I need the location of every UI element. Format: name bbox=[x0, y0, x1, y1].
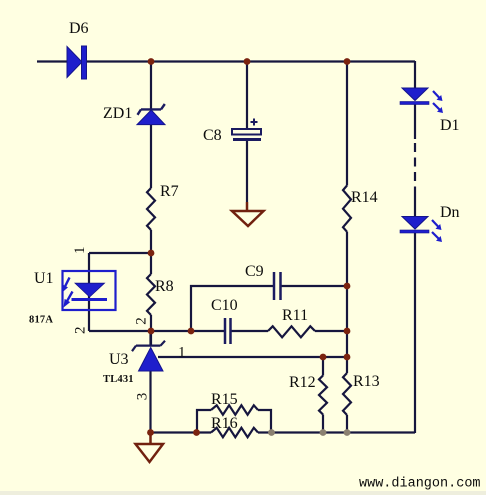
node top-ZD1 bbox=[148, 58, 155, 65]
resistor R15 bbox=[211, 405, 258, 414]
wire vertical x=247 (C8 branch) bbox=[246, 61, 248, 202]
wire LED dashed section bbox=[414, 143, 416, 191]
svg-text:R15: R15 bbox=[211, 391, 238, 408]
shunt ref U3 TL431 bbox=[132, 331, 165, 371]
svg-text:U1: U1 bbox=[34, 270, 54, 287]
node top-C8 bbox=[244, 58, 251, 65]
node top-R14 bbox=[344, 58, 351, 65]
wire vertical x=347 (R14/R13 branch) bbox=[346, 61, 348, 373]
node R15R16 right bbox=[268, 429, 275, 436]
optocoupler U1 bbox=[62, 271, 116, 310]
svg-text:C9: C9 bbox=[245, 263, 264, 280]
wire U3 pin1 y=357 bbox=[158, 356, 347, 358]
node R12 bottom bbox=[320, 429, 327, 436]
wire top rail bbox=[37, 60, 415, 62]
wire vertical x=151 (ZD1/R7/R8 branch) bbox=[150, 61, 152, 345]
svg-text:R8: R8 bbox=[155, 278, 174, 295]
resistor R14 bbox=[343, 186, 351, 232]
svg-text:R12: R12 bbox=[289, 374, 316, 391]
node C9 bracket bbox=[188, 328, 195, 335]
resistor R12 bbox=[319, 376, 327, 415]
node R13 top bbox=[344, 354, 351, 361]
capacitor C10 bbox=[225, 318, 231, 344]
node R7-R8-U1 bbox=[148, 250, 155, 257]
svg-text:R11: R11 bbox=[282, 307, 308, 324]
svg-text:3: 3 bbox=[134, 393, 150, 401]
wire vertical x=415 (LED string) bbox=[414, 61, 416, 433]
capacitor C8 bbox=[232, 119, 261, 142]
wire C9 branch bbox=[191, 286, 347, 331]
node R13 bottom bbox=[344, 429, 351, 436]
svg-text:2: 2 bbox=[134, 317, 150, 325]
LED D1 bbox=[400, 88, 443, 113]
resistor R8 bbox=[147, 274, 155, 315]
svg-text:D1: D1 bbox=[440, 117, 460, 134]
wire y=331 (U1 pin2 / C10 / R11) bbox=[89, 330, 347, 332]
wire U1 stem bbox=[88, 253, 90, 331]
node C9 right bbox=[344, 283, 351, 290]
resistor R7 bbox=[147, 188, 155, 230]
diode D6 bbox=[67, 46, 87, 79]
wire U3 anode stem bbox=[149, 371, 151, 433]
ground under U3 bbox=[136, 433, 164, 463]
LED Dn bbox=[400, 217, 442, 243]
svg-text:Dn: Dn bbox=[440, 204, 460, 221]
capacitor C9 bbox=[274, 272, 281, 300]
wire U1 pin1 to node y=253 bbox=[89, 252, 151, 254]
svg-text:R7: R7 bbox=[160, 183, 179, 200]
svg-text:C10: C10 bbox=[211, 297, 238, 314]
zener ZD1 bbox=[137, 104, 165, 125]
wire R12 leads bbox=[322, 357, 324, 433]
svg-text:2: 2 bbox=[72, 327, 88, 335]
svg-text:ZD1: ZD1 bbox=[103, 105, 132, 122]
svg-text:817A: 817A bbox=[29, 315, 53, 326]
wire bottom rail y=432 bbox=[151, 431, 416, 433]
node R8-U1-U3 bbox=[148, 328, 155, 335]
node R12 top bbox=[320, 354, 327, 361]
resistor R13 bbox=[343, 373, 351, 415]
wire R15 bracket bbox=[197, 410, 271, 433]
ground under C8 bbox=[232, 202, 264, 226]
svg-text:D6: D6 bbox=[69, 20, 89, 37]
svg-text:1: 1 bbox=[72, 246, 88, 254]
resistor R11 bbox=[268, 326, 315, 337]
node U3 anode gnd bbox=[147, 429, 154, 436]
svg-text:R16: R16 bbox=[211, 415, 238, 432]
wire R13 lead bbox=[346, 415, 348, 433]
svg-text:1: 1 bbox=[178, 345, 186, 361]
resistor R16 bbox=[211, 428, 258, 437]
node R11 right bbox=[344, 328, 351, 335]
svg-text:www.diangon.com: www.diangon.com bbox=[359, 477, 481, 492]
svg-text:C8: C8 bbox=[203, 127, 222, 144]
svg-text:R14: R14 bbox=[351, 189, 378, 206]
svg-text:R13: R13 bbox=[353, 373, 380, 390]
svg-text:U3: U3 bbox=[109, 351, 129, 368]
node R15R16 left bbox=[193, 429, 200, 436]
svg-text:TL431: TL431 bbox=[103, 374, 134, 385]
